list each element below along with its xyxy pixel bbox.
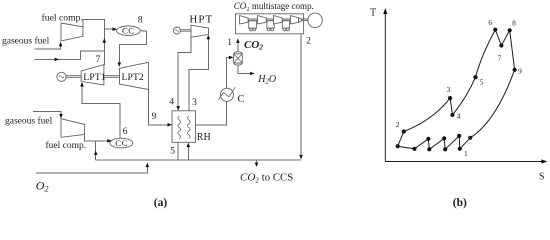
svg-text:CO2 multistage comp.: CO2 multistage comp. bbox=[234, 1, 314, 13]
state point A (intercool) bbox=[396, 144, 400, 148]
cooling curve 9 to 1 bbox=[470, 70, 514, 138]
RH coil 1 bbox=[178, 116, 181, 138]
svg-text:fuel comp.: fuel comp. bbox=[42, 13, 83, 24]
svg-text:9: 9 bbox=[152, 112, 157, 122]
state point B bbox=[412, 147, 416, 151]
arrow: stream 1 up to compressor bbox=[236, 38, 240, 43]
separator X internals bbox=[234, 54, 243, 63]
cooler C circle bbox=[220, 88, 233, 101]
svg-text:(b): (b) bbox=[453, 197, 467, 209]
arrow: stream 7 feed bbox=[55, 58, 60, 62]
svg-text:9: 9 bbox=[518, 67, 522, 76]
wire: recycle bus to RH cold inlet riser bbox=[187, 147, 189, 161]
wire: LPT1 exhaust riser to CC inlet junction bbox=[103, 29, 105, 65]
turbine LPT1 bbox=[81, 65, 104, 85]
wire: recycle riser into fuel line junction bbox=[95, 141, 97, 160]
compressor stage 1 bbox=[240, 16, 249, 25]
svg-text:5: 5 bbox=[170, 146, 175, 156]
state point G bbox=[457, 134, 461, 138]
wire: CC2 outlet stream 6 to LPT1 inlet bbox=[82, 86, 120, 138]
wire: O2 feed line bbox=[36, 165, 148, 174]
intercooler 3 bbox=[282, 21, 289, 29]
compression sawtooth path 1-2 bbox=[398, 132, 471, 150]
compressor stage 4 outlet cone bbox=[299, 18, 302, 23]
S axis bbox=[385, 161, 543, 163]
wire: LPT2 outlet stream 9 to RH bbox=[148, 90, 168, 125]
wire: separator top outlet stream 1 bbox=[237, 43, 239, 52]
svg-text:2: 2 bbox=[306, 36, 311, 46]
state point 5 bbox=[473, 75, 477, 79]
shaft LPT1-LPT2 bbox=[104, 76, 120, 78]
state point 6 bbox=[493, 28, 497, 32]
state point 1 bbox=[458, 147, 462, 151]
wire: fuel comp 2 outlet to CC2 bbox=[85, 135, 108, 141]
arrow: fuel into CC2 bbox=[107, 139, 112, 143]
svg-text:2: 2 bbox=[396, 120, 400, 129]
expansion lines 8-9, 7-8, 6-7 bbox=[495, 30, 514, 70]
svg-text:RH: RH bbox=[197, 132, 211, 143]
compressor stage 3 bbox=[274, 16, 283, 25]
turbine LPT2 bbox=[120, 62, 149, 89]
arrow: gaseous fuel into fuel comp 2 bbox=[59, 114, 63, 119]
wire: gaseous fuel feed to fuel compressor 2 bbox=[33, 111, 61, 114]
arrow: recycle riser up bbox=[94, 151, 98, 156]
RH coil 2 bbox=[187, 116, 190, 138]
state point E bbox=[442, 136, 446, 140]
state point 3 bbox=[448, 96, 452, 100]
cooler C zigzag bbox=[218, 87, 235, 100]
wire: CC1 outlet to LPT2 inlet bbox=[119, 31, 146, 63]
wire: CC inlet stub bbox=[104, 28, 112, 30]
compressor motor circle bbox=[308, 13, 322, 27]
combustor CC2 ellipse bbox=[110, 138, 133, 148]
arrow: gaseous fuel into fuel comp 1 bbox=[59, 42, 63, 47]
svg-text:CC: CC bbox=[115, 138, 128, 148]
svg-text:3: 3 bbox=[447, 85, 451, 94]
svg-text:fuel comp.: fuel comp. bbox=[46, 140, 87, 151]
svg-text:(a): (a) bbox=[154, 197, 168, 209]
T axis bbox=[384, 13, 386, 162]
generator G2 shaft (LPT1) bbox=[66, 76, 81, 78]
svg-text:7: 7 bbox=[498, 54, 502, 63]
wire: RH hot outlet to cooler C bbox=[196, 101, 227, 124]
svg-text:1: 1 bbox=[464, 149, 468, 158]
arrow: stream 6 into LPT1 bbox=[80, 82, 84, 87]
wire: cooler C to separator bbox=[227, 57, 230, 88]
wire: RH outlet stream 3 to HPT inlet bbox=[189, 39, 208, 111]
arrow: bus into RH bottom bbox=[187, 143, 191, 148]
state point F bbox=[443, 147, 447, 151]
heating curve 4-5-6 bbox=[453, 30, 496, 115]
svg-text:S: S bbox=[539, 172, 545, 183]
arrow: O2 riser up bbox=[146, 163, 150, 168]
arrow: stream 4 into RH top bbox=[176, 106, 180, 111]
svg-text:T: T bbox=[370, 8, 376, 19]
state point 7 bbox=[499, 43, 503, 47]
wire: RH stream 5 down to recycle bus bbox=[177, 142, 179, 160]
state point C bbox=[426, 137, 430, 141]
svg-text:7: 7 bbox=[96, 55, 101, 65]
wire: CO2 to CCS branch stub bbox=[256, 160, 258, 162]
svg-text:6: 6 bbox=[488, 18, 492, 27]
water separator vessel bbox=[234, 52, 243, 65]
fuel compressor 2 (bottom) bbox=[61, 119, 85, 138]
arrow: stream 3 into HPT bbox=[207, 35, 211, 40]
intercooler 2 bbox=[267, 21, 274, 29]
arrow: stream 9 into RH bbox=[168, 123, 173, 127]
state point 8 bbox=[508, 28, 512, 32]
turbine HPT bbox=[191, 25, 209, 37]
T axis arrowhead bbox=[383, 8, 387, 14]
arrow: H2O out bbox=[250, 72, 255, 76]
arrow: stream 2 down to bus bbox=[299, 155, 303, 160]
svg-text:3: 3 bbox=[192, 98, 197, 108]
svg-text:4: 4 bbox=[169, 97, 174, 107]
arrow: into separator bbox=[229, 56, 234, 60]
drop 3-4 bbox=[450, 98, 452, 115]
compressor stage 2 bbox=[258, 16, 267, 25]
wire: fuel comp 1 outlet to CC junction bbox=[83, 19, 104, 29]
wire: stream 7 oxidant feed line bbox=[34, 51, 104, 59]
wire: recycle bus line bbox=[96, 159, 301, 161]
svg-text:1: 1 bbox=[227, 38, 232, 48]
generator G1 circle (HPT) bbox=[173, 27, 180, 34]
svg-text:5: 5 bbox=[480, 77, 484, 86]
svg-text:gaseous fuel: gaseous fuel bbox=[2, 36, 50, 47]
svg-text:C: C bbox=[238, 94, 245, 105]
generator G1 shaft (HPT) bbox=[180, 30, 191, 32]
state point 2 bbox=[402, 129, 406, 133]
svg-text:LPT1: LPT1 bbox=[83, 72, 105, 83]
multistage shaft segments bbox=[248, 19, 308, 21]
svg-text:6: 6 bbox=[123, 127, 128, 137]
combustor CC1 ellipse bbox=[116, 26, 140, 35]
compressor stage 4 bbox=[291, 16, 299, 25]
fuel compressor 1 (top) bbox=[61, 23, 83, 41]
wire: HPT exhaust stream 4 to RH bbox=[178, 37, 191, 107]
intercooler 1 bbox=[249, 21, 257, 29]
svg-text:HPT: HPT bbox=[189, 13, 213, 25]
CO2 multistage compressor casing box bbox=[236, 14, 304, 34]
svg-text:8: 8 bbox=[138, 16, 143, 26]
T-S diagram panel (b) bbox=[385, 13, 543, 162]
svg-text:LPT2: LPT2 bbox=[122, 72, 144, 83]
generator G2 circle (LPT) bbox=[57, 72, 66, 81]
svg-text:CC: CC bbox=[122, 26, 135, 36]
arrow: CC1 outlet into LPT2 bbox=[118, 62, 122, 67]
reheater RH box bbox=[172, 111, 196, 143]
wire: separator bottom outlet to H2O bbox=[238, 65, 250, 73]
wire: stream 2 from multistage compressor to bus bbox=[300, 34, 302, 157]
state point D bbox=[427, 147, 431, 151]
svg-text:8: 8 bbox=[512, 19, 516, 28]
wire: gaseous fuel feed to fuel compressor 1 bbox=[34, 45, 60, 50]
arrow: LPT1 exhaust up to CC bbox=[103, 38, 107, 43]
state point 9 bbox=[513, 68, 517, 72]
svg-text:4: 4 bbox=[457, 112, 461, 121]
arrow: into CC1 bbox=[113, 27, 118, 31]
arrow: CO2 to CCS down bbox=[255, 163, 259, 168]
state point 4 bbox=[450, 113, 454, 117]
svg-text:gaseous fuel: gaseous fuel bbox=[5, 115, 53, 126]
state point I bbox=[468, 136, 472, 140]
svg-text:CO2 to CCS: CO2 to CCS bbox=[240, 171, 293, 184]
recuperation curve 2-3 bbox=[404, 98, 450, 131]
S axis arrowhead bbox=[541, 159, 547, 163]
